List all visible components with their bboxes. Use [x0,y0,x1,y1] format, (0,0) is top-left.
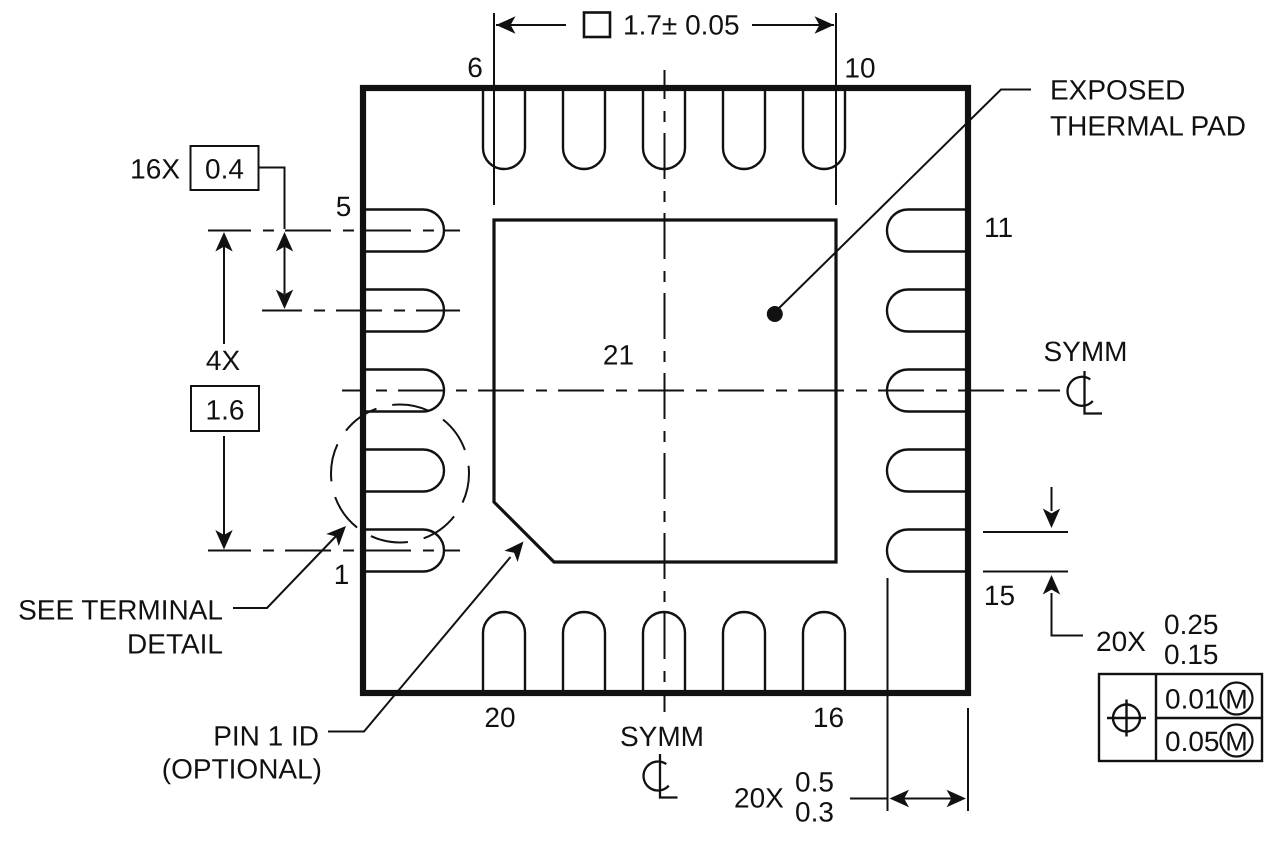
terminal pad pin 2 (left side) [363,450,444,492]
svg-text:6: 6 [467,52,483,83]
svg-text:16X: 16X [130,154,180,185]
terminal pad pin 5 (left side) [363,210,444,252]
terminal pad pin 1 (left side) [363,530,444,572]
SEE TERMINAL DETAIL label [18,595,223,660]
EXPOSED THERMAL PAD label [1050,75,1246,142]
terminal pad pin 13 (right side) [887,370,968,412]
terminal pad pin 8 (top side) [643,88,685,169]
terminal pad pin 4 (left side) [363,290,444,332]
svg-text:M: M [1225,685,1248,715]
pin 4 centerline [262,310,460,312]
feature control frame with position symbol [1099,674,1262,761]
terminal pad pin 14 (right side) [887,450,968,492]
terminal detail dashed circle [331,405,469,543]
svg-text:SEE TERMINAL: SEE TERMINAL [18,595,223,626]
terminal pad pin 15 (right side) [887,530,968,572]
terminal pad pin 7 (top side) [563,88,605,169]
terminal pad pin 3 (left side) [363,370,444,412]
svg-text:5: 5 [336,191,352,222]
terminal pad pin 9 (top side) [723,88,765,169]
terminal pad pin 19 (bottom side) [563,612,605,693]
svg-text:4X: 4X [206,345,241,376]
terminal pad pin 17 (bottom side) [723,612,765,693]
pin 1 centerline [208,550,460,552]
SEE TERMINAL DETAIL leader arrow [233,526,346,608]
svg-text:21: 21 [603,340,634,371]
svg-text:15: 15 [984,580,1015,611]
svg-text:SYMM: SYMM [620,721,704,752]
pin 5 centerline [208,230,460,232]
terminal pad pin 16 (bottom side) [803,612,845,693]
QFN package body outline [363,88,968,693]
terminal pad pin 20 (bottom side) [483,612,525,693]
centerline symbol bottom [644,754,678,798]
svg-text:1: 1 [334,559,350,590]
PIN 1 ID leader arrow [328,542,524,732]
svg-text:0.05: 0.05 [1165,726,1220,757]
svg-text:20X: 20X [734,783,784,814]
terminal pad pin 10 (top side) [803,88,845,169]
terminal pad pin 18 (bottom side) [643,612,685,693]
pitch double arrow 0.4 [276,232,293,309]
EXPOSED THERMAL PAD leader with dot [767,90,1031,323]
vertical SYMM centerline [664,70,666,712]
terminal pad pin 6 (top side) [483,88,525,169]
svg-text:0.15: 0.15 [1164,639,1219,670]
terminal pad pin 11 (right side) [887,210,968,252]
dimension 4X 1.6 vertical [191,232,259,550]
svg-text:1.7± 0.05: 1.7± 0.05 [623,10,740,41]
svg-text:EXPOSED: EXPOSED [1050,75,1185,106]
20X 0.25 0.15 labels [1096,609,1219,670]
svg-text:20: 20 [484,702,515,733]
svg-text:20X: 20X [1096,626,1146,657]
svg-text:0.5: 0.5 [795,767,834,798]
svg-text:M: M [1225,727,1248,757]
terminal pad pin 12 (right side) [887,290,968,332]
svg-text:DETAIL: DETAIL [127,629,223,660]
svg-text:0.01: 0.01 [1165,684,1220,715]
svg-text:(OPTIONAL): (OPTIONAL) [162,754,322,785]
dimension 20X 0.25/0.15 terminal width [983,487,1083,636]
tolerance 0.01 M [1165,683,1253,715]
centerline symbol right [1068,371,1102,414]
svg-text:1.6: 1.6 [206,395,245,426]
svg-text:0.3: 0.3 [795,797,834,828]
svg-text:10: 10 [844,53,875,84]
dimension 1.7 +/-0.05 thermal pad width with square symbol [494,10,836,206]
svg-text:0.25: 0.25 [1164,609,1219,640]
PIN 1 ID (OPTIONAL) label [162,721,322,785]
dimension box 16X 0.4 with leader [191,146,285,229]
svg-text:THERMAL PAD: THERMAL PAD [1050,111,1246,142]
svg-text:0.4: 0.4 [205,154,244,185]
svg-text:16: 16 [813,702,844,733]
dimension 20X 0.5/0.3 terminal length [850,578,968,811]
svg-text:PIN 1 ID: PIN 1 ID [213,721,319,752]
svg-text:SYMM: SYMM [1044,336,1128,367]
horizontal SYMM centerline [342,390,1060,392]
tolerance 0.05 M [1165,725,1253,758]
exposed thermal pad 21 outline [494,220,836,562]
svg-text:11: 11 [984,212,1013,243]
20X 0.5 0.3 labels [734,767,834,828]
